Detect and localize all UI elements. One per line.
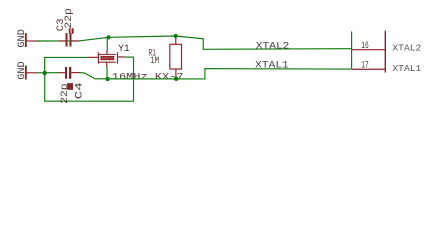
svg-text:GND: GND [17,61,28,80]
svg-text:GND: GND [17,29,28,48]
wire net XTAL1 bottom rail from C4 under crystal and R1 to pin 17 corner [79,69,352,79]
wire GND2 to C4 left lead [37,72,59,74]
ground GND1 [17,29,37,48]
wire crystal bottom pin to XTAL1 rail [106,67,108,79]
IC U1 body left edge [384,31,386,73]
svg-text:XTAL2: XTAL2 [256,41,290,52]
svg-text:XTAL1: XTAL1 [392,63,421,74]
wire vertical stub joining pin rows at IC [351,32,353,70]
wire shield case loop around crystal to ground junction [45,57,134,101]
svg-text:Y1: Y1 [118,44,129,55]
pin 17 lead of U1 [352,68,385,70]
pin 16 lead of U1 [352,49,385,51]
ground GND2 [17,61,37,80]
node junction R1 top on XTAL2 rail [174,34,178,38]
svg-text:C4: C4 [74,82,85,99]
svg-text:XTAL1: XTAL1 [255,60,289,71]
node junction R1 bottom on XTAL1 rail [174,77,178,81]
svg-text:XTAL2: XTAL2 [392,42,421,53]
wire from XTAL2 rail down to crystal top pin [106,37,108,50]
crystal Y1 [88,50,125,67]
svg-text:16MHz KX-7: 16MHz KX-7 [112,72,184,83]
svg-text:16: 16 [361,40,368,52]
capacitor C4 [59,67,80,90]
capacitor C3 [59,28,80,46]
svg-text:22p: 22p [64,8,75,29]
svg-text:22p: 22p [60,83,71,104]
resistor R1 [170,36,182,77]
node junction GND2 with shield loop [43,71,47,75]
node junction crystal top on XTAL2 rail [106,35,110,39]
svg-text:1M: 1M [150,56,159,67]
wire net XTAL2 top rail from GND1/C3 to pin 16 corner [37,36,352,49]
svg-text:17: 17 [361,60,368,72]
node junction crystal bottom on XTAL1 rail [105,77,109,81]
